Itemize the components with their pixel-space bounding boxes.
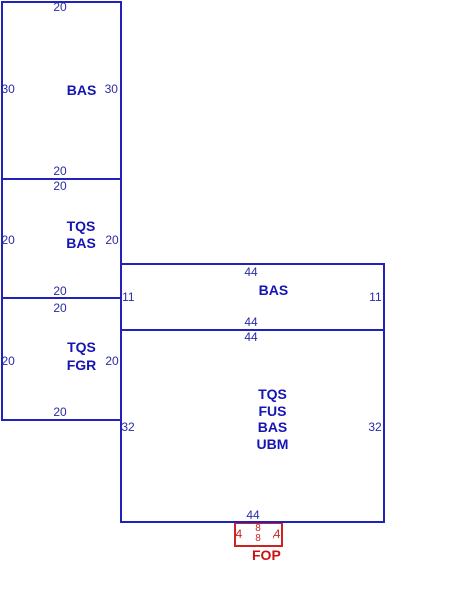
label: comma before right 4 in FOP box: [272, 529, 275, 540]
wire: boundary between BAS (right) and TQS FUS BAS UBM: [120, 329, 386, 331]
wire: left edge of left column: [1, 1, 3, 421]
label: dim 32 right of TQS FUS BAS UBM: [368, 421, 381, 433]
label: dim 20 bottom of TQS FGR: [53, 406, 66, 418]
wire: right edge of right block: [383, 263, 385, 523]
label: dim 20 top of TQS BAS: [53, 180, 66, 192]
label: FOP title: [252, 548, 281, 562]
label: dim 20 top of BAS: [53, 1, 66, 13]
wire: shared vertical edge (right of left column / left of right block): [120, 1, 122, 523]
label: dim 44 bottom of TQS FUS BAS UBM: [246, 509, 259, 521]
label: dim 8 upper inside FOP box: [255, 524, 261, 534]
label: dim 8 lower inside FOP box: [255, 534, 261, 544]
label: dim 44 top of BAS (right): [244, 266, 257, 278]
wire: top edge of room BAS (left column): [1, 1, 122, 3]
label: dim 11 left of BAS (right): [122, 291, 134, 303]
label: dim 20 top of TQS FGR: [53, 302, 66, 314]
wire: top edge of room BAS (right block): [120, 263, 386, 265]
label: dim 30 right of BAS: [105, 83, 118, 95]
wire: boundary between BAS and TQS BAS: [1, 178, 122, 180]
label: dim 4 right inside FOP box: [274, 528, 281, 540]
wire: bottom edge of TQS FGR: [1, 419, 122, 421]
rectangle: red FOP box: [234, 522, 283, 547]
label: dim 44 bottom of BAS (right): [244, 316, 257, 328]
label: dim 44 top of TQS FUS BAS UBM: [244, 331, 257, 343]
room title BAS (left): [67, 83, 97, 97]
label: dim 20 left of TQS FGR: [2, 355, 15, 367]
wire: bottom edge of TQS FUS BAS UBM: [120, 521, 386, 523]
room title BAS (right): [259, 283, 289, 297]
label: dim 20 bottom of BAS: [53, 165, 66, 177]
room title TQS FUS BAS UBM: [257, 386, 289, 453]
label: dim 30 left of BAS: [2, 83, 15, 95]
label: dim 20 left of TQS BAS: [2, 234, 15, 246]
label: dim 32 left of TQS FUS BAS UBM: [121, 421, 134, 433]
room title TQS BAS: [66, 218, 96, 252]
wire: boundary between TQS BAS and TQS FGR: [1, 297, 122, 299]
label: dim 11 right of BAS (right): [369, 291, 381, 303]
room title TQS FGR: [67, 339, 97, 374]
label: dim 20 right of TQS FGR: [105, 355, 118, 367]
label: dim 4 left inside FOP box: [236, 528, 243, 540]
label: dim 20 right of TQS BAS: [105, 234, 118, 246]
label: dim 20 bottom of TQS BAS: [53, 285, 66, 297]
